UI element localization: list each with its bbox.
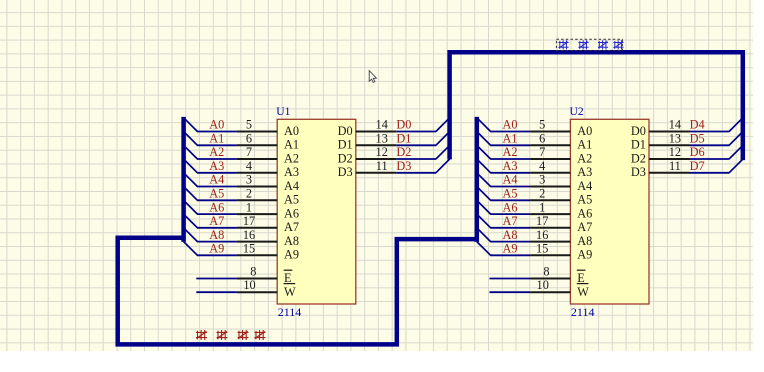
svg-text:6: 6 (539, 132, 545, 146)
bus entry D2 of U1 (436, 145, 450, 159)
bus entry A3 of U1 (184, 159, 198, 173)
bus entry A4 of U2 (477, 173, 491, 187)
bus entry A1 of U2 (477, 132, 491, 146)
pin 13 (D1) of U1 (356, 144, 397, 146)
pin 17 (A7) of U2 (530, 227, 570, 229)
wire D2 of U1 (396, 158, 436, 160)
svg-text:A1: A1 (284, 138, 299, 152)
bus entry D6 of U2 (729, 145, 743, 159)
svg-text:U1: U1 (276, 105, 290, 118)
svg-text:A3: A3 (284, 165, 299, 179)
bus entry A2 of U2 (477, 145, 491, 159)
bus entry D7 of U2 (729, 159, 743, 173)
svg-text:D1: D1 (631, 138, 646, 152)
svg-text:A2: A2 (284, 151, 299, 165)
svg-text:14: 14 (669, 118, 681, 132)
wire D1 of U1 (396, 144, 436, 146)
wire A9 of U2 (490, 254, 530, 256)
bus entry D3 of U1 (436, 159, 450, 173)
svg-text:D6: D6 (690, 145, 705, 159)
bus entry A6 of U2 (477, 200, 491, 214)
svg-text:8: 8 (250, 265, 256, 279)
svg-text:W: W (284, 285, 296, 299)
svg-text:3: 3 (246, 173, 252, 187)
svg-text:A9: A9 (284, 248, 299, 262)
svg-text:A8: A8 (577, 234, 592, 248)
wire A7 of U2 (490, 227, 530, 229)
address bus riser at U2 (475, 117, 480, 242)
bus entry A4 of U1 (184, 173, 198, 187)
bus entry A9 of U1 (184, 242, 198, 256)
pin 12 (D2) of U1 (356, 158, 397, 160)
bus entry D5 of U2 (729, 132, 743, 146)
wire D4 of U2 (690, 131, 730, 133)
svg-text:A9: A9 (577, 248, 592, 262)
svg-text:A0: A0 (209, 118, 224, 132)
bus entry A8 of U2 (477, 228, 491, 242)
svg-text:10: 10 (243, 278, 255, 292)
svg-text:4: 4 (539, 159, 545, 173)
IC U1 2114 SRAM body (277, 119, 356, 304)
svg-text:14: 14 (376, 118, 388, 132)
pin 15 (A9) of U2 (530, 254, 570, 256)
pin 10 (write enable W-bar) of U2 (530, 291, 570, 293)
svg-text:A1: A1 (209, 132, 224, 146)
svg-text:D3: D3 (396, 159, 411, 173)
pin 4 (A3) of U1 (237, 172, 277, 174)
svg-text:A2: A2 (503, 145, 518, 159)
pin 11 (D3) of U1 (356, 172, 397, 174)
svg-text:A5: A5 (577, 193, 592, 207)
svg-text:12: 12 (669, 145, 681, 159)
bus entry A8 of U1 (184, 228, 198, 242)
svg-text:2114: 2114 (278, 305, 302, 319)
svg-text:A7: A7 (503, 214, 518, 228)
svg-text:D5: D5 (690, 132, 705, 146)
wire A1 of U2 (490, 144, 530, 146)
svg-text:D2: D2 (338, 151, 353, 165)
svg-text:A7: A7 (209, 214, 224, 228)
wire A8 of U2 (490, 241, 530, 243)
svg-text:A0: A0 (577, 124, 592, 138)
svg-text:16: 16 (536, 228, 548, 242)
svg-text:4: 4 (246, 159, 252, 173)
svg-text:D1: D1 (338, 138, 353, 152)
svg-text:17: 17 (536, 214, 548, 228)
svg-text:A1: A1 (577, 138, 592, 152)
wire to pin 10 (W) of U2 (490, 291, 531, 293)
svg-text:A2: A2 (577, 151, 592, 165)
pin 5 (A0) of U1 (237, 131, 277, 133)
svg-text:A0: A0 (284, 124, 299, 138)
pin 2 (A5) of U1 (237, 199, 277, 201)
svg-text:E: E (284, 271, 292, 285)
pin 1 (A6) of U1 (237, 213, 277, 215)
pin 12 (D6) of U2 (649, 158, 690, 160)
bus entry A7 of U1 (184, 214, 198, 228)
svg-text:16: 16 (243, 228, 255, 242)
svg-text:5: 5 (539, 118, 545, 132)
svg-text:D0: D0 (338, 124, 353, 138)
svg-text:D0: D0 (631, 124, 646, 138)
pin 14 (D4) of U2 (649, 131, 690, 133)
wire A8 of U1 (197, 241, 237, 243)
svg-text:A3: A3 (503, 159, 518, 173)
pin 15 (A9) of U1 (237, 254, 277, 256)
wire D0 of U1 (396, 131, 436, 133)
svg-text:D3: D3 (338, 165, 353, 179)
svg-text:A3: A3 (577, 165, 592, 179)
pin 5 (A0) of U2 (530, 131, 570, 133)
pin 4 (A3) of U2 (530, 172, 570, 174)
svg-text:10: 10 (537, 278, 549, 292)
svg-text:A5: A5 (284, 193, 299, 207)
pin 16 (A8) of U2 (530, 241, 570, 243)
svg-text:A4: A4 (503, 173, 518, 187)
pin 14 (D0) of U1 (356, 131, 397, 133)
wire A7 of U1 (197, 227, 237, 229)
svg-text:A0: A0 (503, 118, 518, 132)
svg-text:15: 15 (243, 242, 255, 256)
bus entry A0 of U2 (477, 118, 491, 132)
pin 16 (A8) of U1 (237, 241, 277, 243)
address bus riser at U1 (181, 117, 186, 242)
svg-text:A9: A9 (503, 242, 518, 256)
svg-text:2114: 2114 (571, 305, 595, 319)
svg-text:A2: A2 (209, 145, 224, 159)
svg-text:A4: A4 (284, 179, 299, 193)
pin 1 (A6) of U2 (530, 213, 570, 215)
bus entry A5 of U1 (184, 187, 198, 201)
bus entry A9 of U2 (477, 242, 491, 256)
svg-text:7: 7 (246, 145, 252, 159)
bus entry A7 of U2 (477, 214, 491, 228)
svg-text:13: 13 (669, 132, 681, 146)
svg-text:2: 2 (539, 187, 545, 201)
svg-text:A5: A5 (209, 187, 224, 201)
wire D3 of U1 (396, 172, 436, 174)
wire A1 of U1 (197, 144, 237, 146)
svg-text:6: 6 (246, 132, 252, 146)
bus entry D0 of U1 (436, 118, 450, 132)
address bus routing (bottom) (118, 238, 477, 345)
svg-text:D2: D2 (631, 151, 646, 165)
bus entry D4 of U2 (729, 118, 743, 132)
pin 6 (A1) of U1 (237, 144, 277, 146)
svg-text:A4: A4 (577, 179, 592, 193)
svg-text:A8: A8 (503, 228, 518, 242)
wire A6 of U1 (197, 213, 237, 215)
wire A4 of U1 (197, 186, 237, 188)
svg-text:15: 15 (536, 242, 548, 256)
wire D6 of U2 (690, 158, 730, 160)
svg-text:D4: D4 (690, 118, 705, 132)
pin 6 (A1) of U2 (530, 144, 570, 146)
wire to pin 10 (W) of U1 (196, 291, 237, 293)
pin 17 (A7) of U1 (237, 227, 277, 229)
svg-text:A1: A1 (503, 132, 518, 146)
wire A4 of U2 (490, 186, 530, 188)
bus entry D1 of U1 (436, 132, 450, 146)
wire A2 of U1 (197, 158, 237, 160)
bus entry A0 of U1 (184, 118, 198, 132)
svg-text:1: 1 (539, 200, 545, 214)
svg-text:3: 3 (539, 173, 545, 187)
svg-text:D1: D1 (396, 132, 411, 146)
svg-text:A7: A7 (284, 220, 299, 234)
svg-text:A6: A6 (284, 207, 299, 221)
svg-text:E: E (577, 271, 585, 285)
svg-text:A8: A8 (209, 228, 224, 242)
wire A3 of U2 (490, 172, 530, 174)
wire D7 of U2 (690, 172, 730, 174)
data bus (top, joining U1 and U2 data risers) (450, 52, 743, 160)
svg-text:W: W (577, 285, 589, 299)
svg-text:U2: U2 (570, 105, 584, 118)
svg-text:A7: A7 (577, 220, 592, 234)
svg-text:D2: D2 (396, 145, 411, 159)
IC U2 2114 SRAM body (570, 119, 649, 304)
svg-text:11: 11 (669, 159, 681, 173)
wire A5 of U2 (490, 199, 530, 201)
svg-text:D0: D0 (396, 118, 411, 132)
bus entry A6 of U1 (184, 200, 198, 214)
wire A6 of U2 (490, 213, 530, 215)
net name label box (data bus 数据总线), selected (556, 39, 623, 50)
wire A5 of U1 (197, 199, 237, 201)
wire A0 of U2 (490, 131, 530, 133)
svg-text:D3: D3 (631, 165, 646, 179)
pin 10 (write enable W-bar) of U1 (237, 291, 277, 293)
svg-text:11: 11 (376, 159, 388, 173)
svg-text:A9: A9 (209, 242, 224, 256)
svg-text:A8: A8 (284, 234, 299, 248)
svg-text:12: 12 (376, 145, 388, 159)
svg-text:A6: A6 (503, 200, 518, 214)
wire A3 of U1 (197, 172, 237, 174)
wire D5 of U2 (690, 144, 730, 146)
bus entry A2 of U1 (184, 145, 198, 159)
svg-text:A6: A6 (209, 200, 224, 214)
bus entry A1 of U1 (184, 132, 198, 146)
pin 7 (A2) of U1 (237, 158, 277, 160)
svg-text:7: 7 (539, 145, 545, 159)
svg-text:A3: A3 (209, 159, 224, 173)
svg-text:17: 17 (243, 214, 255, 228)
wire A2 of U2 (490, 158, 530, 160)
pin 8 (chip enable E-bar) of U1 (237, 278, 277, 280)
wire to pin 8 (E) of U2 (490, 278, 531, 280)
svg-text:13: 13 (376, 132, 388, 146)
pin 3 (A4) of U1 (237, 186, 277, 188)
pin 7 (A2) of U2 (530, 158, 570, 160)
pin 3 (A4) of U2 (530, 186, 570, 188)
svg-text:5: 5 (246, 118, 252, 132)
net name label (address bus 地址总线) (196, 330, 266, 340)
pin 2 (A5) of U2 (530, 199, 570, 201)
svg-text:A4: A4 (209, 173, 224, 187)
pin 13 (D5) of U2 (649, 144, 690, 146)
svg-text:1: 1 (246, 200, 252, 214)
bus entry A5 of U2 (477, 187, 491, 201)
svg-text:2: 2 (246, 187, 252, 201)
pin 11 (D7) of U2 (649, 172, 690, 174)
svg-text:D7: D7 (690, 159, 705, 173)
svg-text:A5: A5 (503, 187, 518, 201)
wire to pin 8 (E) of U1 (196, 278, 237, 280)
svg-text:8: 8 (543, 265, 549, 279)
pin 8 (chip enable E-bar) of U2 (530, 278, 570, 280)
bus entry A3 of U2 (477, 159, 491, 173)
svg-text:A6: A6 (577, 207, 592, 221)
mouse cursor (369, 71, 376, 83)
wire A9 of U1 (197, 254, 237, 256)
wire A0 of U1 (197, 131, 237, 133)
